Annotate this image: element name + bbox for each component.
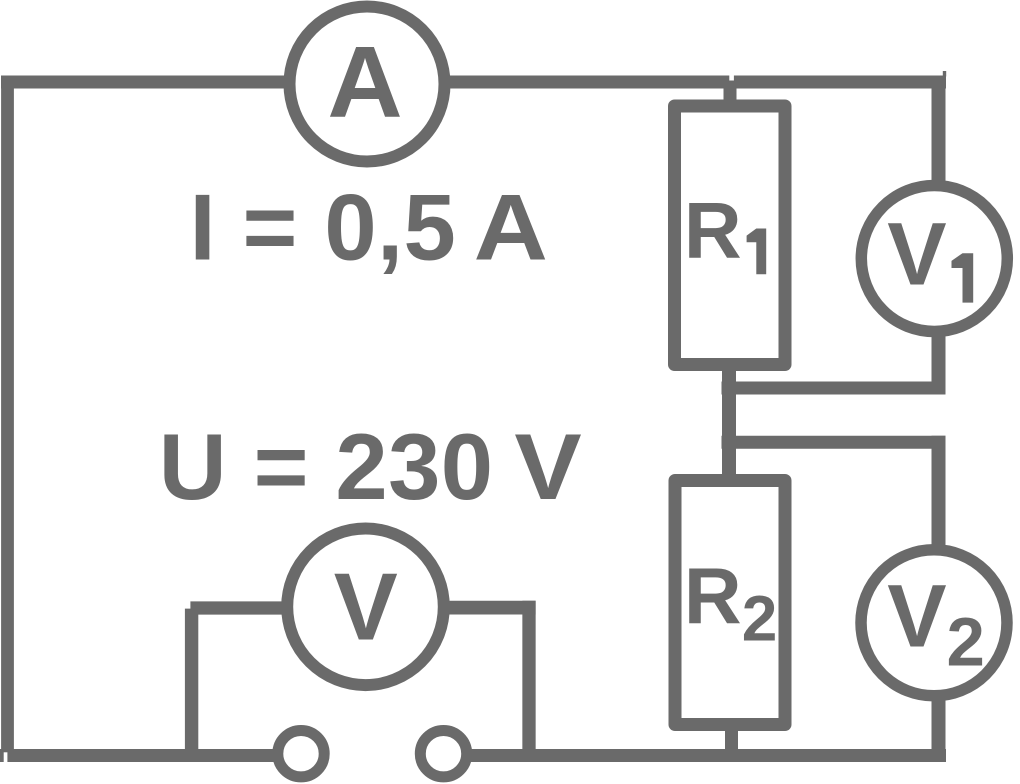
wire V-meter left vertical [185, 609, 198, 756]
wire branch2 (node between R2 and V2) [722, 436, 946, 449]
wire bottom left segment [0, 749, 301, 762]
svg-text:A: A [474, 174, 548, 279]
svg-text:I = 0,5: I = 0,5 [190, 174, 457, 279]
voltmeter V2 circle [861, 550, 1007, 696]
svg-text:U = 230: U = 230 [159, 414, 494, 519]
svg-text:V: V [887, 204, 946, 304]
wire branch2 down to V2 top [932, 436, 946, 547]
wire V1 bottom to branch [932, 335, 946, 395]
bottom-left corner white notch artifact [4, 752, 8, 762]
svg-text:A: A [327, 27, 402, 139]
voltmeter V1 subscript 1 [952, 253, 974, 302]
voltmeter V1 circle [861, 186, 1007, 332]
wire V-meter left horizontal [190, 601, 284, 614]
terminal right [420, 731, 466, 777]
wire V2 bottom to bottom wire [932, 699, 946, 762]
wire R1 to R2 connector [722, 368, 736, 476]
svg-text:2: 2 [742, 583, 778, 655]
terminal left [278, 731, 324, 777]
wire stub R2 to bottom wire [725, 728, 738, 756]
wire V-meter right vertical [522, 601, 535, 756]
wire branch1 (node between R1 and V1) [722, 382, 946, 395]
svg-text:R: R [684, 186, 742, 275]
svg-text:R: R [684, 552, 742, 641]
resistor R1 label subscript 1 [747, 229, 767, 275]
junction artifact white tick on top wire [729, 75, 734, 80]
svg-text:2: 2 [947, 603, 985, 680]
svg-text:V: V [514, 414, 582, 519]
ammeter A1 circle [290, 7, 445, 162]
wire stub top wire to R1 [724, 82, 737, 102]
svg-text:V: V [887, 566, 946, 666]
voltmeter V circle [287, 529, 444, 686]
wire top [1, 76, 946, 89]
wire bottom right segment [445, 749, 946, 762]
resistor R2 [675, 481, 785, 725]
svg-text:V: V [334, 554, 398, 661]
resistor R1 [675, 106, 786, 365]
wire left [1, 76, 14, 753]
wire V-meter right horizontal [447, 601, 536, 615]
wire right column top (to V1) [932, 76, 946, 184]
top-right corner nub artifact [943, 71, 946, 77]
